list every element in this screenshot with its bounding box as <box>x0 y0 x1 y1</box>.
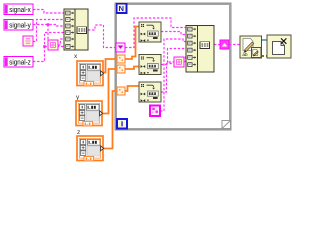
write to text file node <box>240 36 262 58</box>
wire subVI3 to node C input <box>169 61 175 63</box>
function node B <box>48 40 58 50</box>
wire signal-z branch to bundle1 row6 <box>45 46 65 48</box>
constant node A <box>23 36 33 46</box>
subVI 1 <box>139 22 161 42</box>
junction on signal-y wire <box>47 23 50 26</box>
left shift register <box>116 43 125 52</box>
wire signal-y to bundle1 row3 <box>33 25 64 27</box>
wire bundle1 output to left shift register <box>88 25 116 48</box>
orange tunnel 1 <box>117 55 125 63</box>
wire junction to node B <box>47 25 49 41</box>
wire subVI1 output to bundle2 row2 <box>161 32 186 35</box>
wire node B to bundle1 row5 <box>58 39 64 45</box>
array control z <box>77 136 104 161</box>
subVI 3 <box>139 82 161 102</box>
wire bundle2 output to right shift register <box>214 44 220 46</box>
function node C <box>174 57 184 67</box>
wire file refnum write to close <box>261 39 267 41</box>
conversion node D <box>150 106 160 117</box>
wire node C output to bundle2 row5 <box>184 56 186 62</box>
right shift register <box>220 40 229 49</box>
wire shift register to bundle2 row1 <box>125 18 186 48</box>
loop resize handle <box>222 121 231 129</box>
wire tunnel 3 to subVI3 <box>125 86 139 91</box>
close file node <box>267 35 291 58</box>
svg-text:signal-x: signal-x <box>9 7 31 14</box>
wire signal-z to bundle1 row4 <box>33 33 64 62</box>
string control signal-y <box>4 20 33 31</box>
svg-text:N: N <box>119 4 124 13</box>
bundle node 1 <box>64 9 88 50</box>
bundle node 2 <box>186 26 214 73</box>
wire subVI3 output to bundle2 row6 <box>161 64 186 93</box>
subVI 2 <box>139 55 161 75</box>
wire control z to tunnel 3 <box>103 91 117 149</box>
wire right shift register to write node <box>229 44 240 46</box>
svg-text:signal-y: signal-y <box>9 23 31 30</box>
wire signal-x to bundle1 row1 <box>33 10 64 14</box>
orange tunnel 3 <box>117 87 125 95</box>
wire control x to tunnel 1 (orange array) <box>103 59 117 73</box>
wire node A to bundle1 row2 <box>33 20 64 42</box>
iteration terminal i <box>117 119 127 129</box>
wire control y to tunnel 2 <box>102 69 117 114</box>
for loop frame <box>115 3 231 130</box>
orange tunnel 2 <box>117 65 125 73</box>
for loop count terminal N <box>117 4 127 13</box>
wire node D to bundle2 row3 <box>160 39 186 111</box>
wire tunnel 1 to subVI1 <box>125 27 139 60</box>
svg-text:signal-z: signal-z <box>9 60 31 67</box>
wire tunnel 2 to subVI2 <box>125 67 139 70</box>
svg-text:z: z <box>77 129 80 136</box>
array control y <box>76 101 103 126</box>
array control x <box>77 61 104 86</box>
string control signal-z <box>4 57 33 68</box>
wire subVI2 output to bundle2 row4 <box>161 49 186 65</box>
junction on signal-z wire <box>43 45 46 48</box>
wire error cluster write to close <box>261 55 267 57</box>
string control signal-x <box>4 4 33 15</box>
svg-text:ab: ab <box>242 52 248 57</box>
